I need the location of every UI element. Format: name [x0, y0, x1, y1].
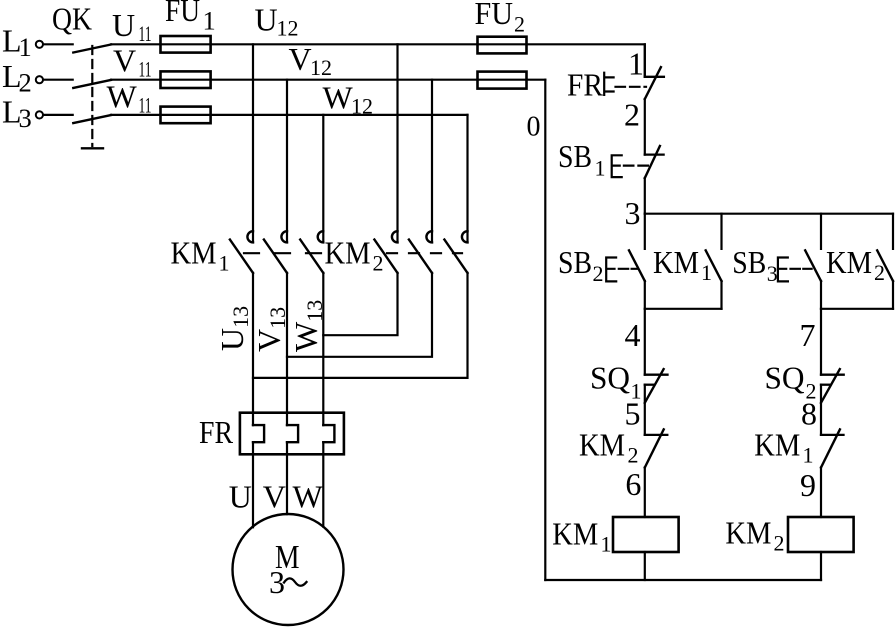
- svg-text:1: 1: [803, 443, 814, 468]
- pushbutton SB3 (NO start rev) blade: [805, 250, 821, 281]
- svg-text:FR: FR: [567, 67, 604, 103]
- wire SB2 lower: [644, 281, 646, 309]
- wire V to motor: [286, 442, 288, 514]
- wire KM1 pole2 drop: [286, 80, 288, 243]
- svg-text:2: 2: [373, 251, 384, 276]
- svg-text:12: 12: [351, 94, 373, 119]
- svg-text:12: 12: [277, 16, 299, 41]
- switch QK handle bar: [82, 147, 103, 149]
- wire KM1 pole3 drop: [322, 115, 324, 242]
- coil KM2: [788, 517, 854, 552]
- svg-text:SB: SB: [558, 244, 592, 280]
- svg-text:11: 11: [139, 93, 152, 118]
- svg-text:12: 12: [310, 55, 332, 80]
- wire KM1 pole1 drop: [252, 44, 254, 242]
- fuse FU2 element 1: [478, 37, 527, 54]
- SB3 actuator dashed link: [791, 268, 812, 270]
- wire KM2 pole2 to V13: [287, 273, 432, 357]
- wire node5 segment: [644, 385, 646, 435]
- svg-text:KM: KM: [579, 427, 625, 463]
- svg-text:W: W: [323, 80, 354, 116]
- fuse FU1 element 1: [161, 36, 211, 53]
- svg-text:2: 2: [774, 531, 785, 556]
- limit switch SQ2 seat tick: [821, 384, 830, 386]
- pushbutton SB2 actuator E: [606, 258, 616, 282]
- svg-text:SB: SB: [732, 244, 766, 280]
- wire node3 segment: [644, 178, 646, 214]
- svg-text:2: 2: [593, 261, 604, 286]
- wire V11 row: [111, 79, 161, 81]
- svg-text:0: 0: [527, 112, 541, 143]
- wire L2 to QK: [43, 79, 72, 81]
- wire node4 segment: [644, 309, 646, 375]
- svg-text:W: W: [293, 479, 324, 515]
- svg-text:U: U: [112, 7, 135, 43]
- wire SB3 drop: [820, 214, 822, 249]
- contactor KM1 main contact pole 3: [300, 231, 323, 273]
- wire bottom rail: [545, 579, 821, 581]
- contactor KM2 interlock blade: [645, 429, 664, 467]
- contactor KM1 linkage dashes: [244, 252, 321, 254]
- FR actuator dashed link: [616, 86, 647, 88]
- svg-text:1: 1: [219, 251, 230, 276]
- switch QK linkage (dashed): [91, 46, 93, 146]
- switch QK pole 1 blade: [73, 45, 111, 53]
- svg-text:1: 1: [628, 46, 644, 82]
- thermal relay FR actuator bracket: [604, 73, 613, 95]
- svg-text:9: 9: [800, 467, 816, 503]
- limit switch SQ2 blade: [821, 369, 840, 403]
- SB1 actuator dashed link: [624, 165, 650, 167]
- svg-text:1: 1: [595, 156, 606, 181]
- svg-text:FR: FR: [199, 414, 234, 450]
- svg-text:V: V: [263, 479, 286, 515]
- svg-text:8: 8: [801, 396, 817, 432]
- wire W11 row: [111, 114, 161, 116]
- contactor KM1 main contact pole 2: [264, 231, 287, 273]
- wire node7 segment: [820, 309, 822, 375]
- svg-text:V: V: [113, 43, 136, 79]
- wire node6 segment: [644, 468, 646, 518]
- wire SB3 lower: [820, 281, 822, 309]
- wire V13 vertical: [286, 273, 288, 425]
- svg-text:3: 3: [767, 261, 778, 286]
- svg-text:2: 2: [514, 12, 525, 37]
- wire U13 vertical: [252, 273, 254, 425]
- svg-text:SQ: SQ: [590, 360, 630, 396]
- svg-text:FU: FU: [165, 0, 200, 28]
- wire L1 to QK: [43, 43, 72, 45]
- wire KM2 pole3 drop: [466, 115, 468, 242]
- terminal L2: [36, 76, 43, 83]
- control vertical: wire node1 segment: [644, 44, 646, 77]
- motor tilde squiggle: [284, 578, 307, 585]
- wire W12 row: [211, 114, 468, 116]
- svg-text:2: 2: [628, 443, 639, 468]
- pushbutton SB2 (NO start fwd) blade: [629, 250, 645, 281]
- contactor KM1 aux contact (NO) blade: [706, 250, 722, 281]
- svg-text:5: 5: [625, 396, 641, 432]
- limit switch SQ2 (NC) foot: [821, 374, 844, 376]
- svg-text:11: 11: [139, 21, 152, 46]
- wire KM2 pole1 to W13: [323, 273, 397, 335]
- pushbutton SB1 (NC stop) foot: [645, 153, 664, 155]
- wire 0 line vertical: [544, 80, 546, 580]
- switch QK pole 2 blade: [73, 80, 111, 88]
- pushbutton SB3 actuator E: [778, 258, 788, 282]
- fuse FU2 element 2: [478, 72, 527, 89]
- wire node9 segment: [820, 468, 822, 518]
- switch QK pole 3 blade: [73, 115, 111, 123]
- svg-text:SQ: SQ: [765, 360, 805, 396]
- wire node8 segment: [820, 385, 822, 435]
- limit switch SQ1 (NC) foot: [645, 374, 668, 376]
- wire V12 to 0 line: [527, 79, 546, 81]
- contactor KM2 aux contact (NO) blade: [877, 250, 893, 281]
- svg-text:3: 3: [269, 564, 285, 600]
- terminal L1: [36, 41, 43, 48]
- wire KM2 aux drop: [892, 214, 894, 249]
- wire L3 to QK: [43, 114, 72, 116]
- SB2 actuator dashed link: [619, 268, 638, 270]
- wire W to motor: [322, 442, 324, 527]
- svg-text:U: U: [255, 2, 278, 38]
- wire U to motor: [252, 442, 254, 527]
- svg-text:2: 2: [624, 97, 640, 133]
- thermal relay FR heater box: [240, 413, 344, 455]
- wire U12 row: [211, 43, 478, 45]
- svg-text:U: U: [229, 479, 252, 515]
- contactor KM1 interlock blade: [821, 429, 840, 467]
- wire KM1 aux lower: [720, 281, 722, 309]
- contactor KM1 interlock contact (NC) foot: [821, 434, 844, 436]
- wire SB3/KM2 join: [821, 308, 893, 310]
- relay contact FR (NC) blade: [645, 67, 661, 99]
- svg-text:FU: FU: [475, 0, 514, 31]
- thermal relay FR heater element 3: [323, 425, 334, 442]
- svg-text:2: 2: [874, 260, 885, 285]
- pushbutton SB1 actuator E: [612, 155, 622, 177]
- svg-text:KM: KM: [325, 235, 371, 271]
- wire KM1 aux drop: [720, 214, 722, 249]
- svg-text:7: 7: [800, 317, 816, 353]
- svg-text:6: 6: [625, 466, 641, 502]
- svg-text:KM: KM: [171, 235, 217, 271]
- wire SB2/KM1 join: [645, 308, 722, 310]
- contactor KM2 linkage dashes: [387, 252, 462, 254]
- wire node3 rail: [645, 213, 893, 215]
- wire W13 vertical: [322, 273, 324, 425]
- svg-text:V: V: [289, 41, 312, 77]
- contactor KM2 main contact pole 2: [409, 231, 432, 273]
- wire U12 to control branch: [527, 44, 645, 77]
- svg-text:QK: QK: [52, 1, 92, 37]
- svg-text:KM: KM: [725, 515, 771, 551]
- thermal relay FR heater element 2: [287, 425, 298, 442]
- svg-text:KM: KM: [826, 244, 872, 280]
- wire V12 row: [211, 79, 478, 81]
- contactor KM2 main contact pole 1: [374, 231, 397, 273]
- contactor KM2 interlock contact (NC) foot: [645, 434, 668, 436]
- thermal relay FR heater element 1: [253, 425, 264, 442]
- coil KM1: [613, 517, 679, 552]
- wire KM2 pole2 drop: [431, 80, 433, 243]
- svg-text:4: 4: [625, 317, 641, 353]
- relay contact FR (NC) foot: [645, 76, 664, 78]
- fuse FU1 element 3: [161, 107, 211, 124]
- contactor KM1 main contact pole 1: [230, 231, 253, 273]
- terminal L3: [36, 111, 43, 118]
- wire coil KM1 to rail: [644, 552, 646, 580]
- motor M circle: [233, 514, 344, 625]
- svg-text:W: W: [107, 79, 138, 115]
- svg-text:3: 3: [625, 195, 641, 231]
- svg-text:KM: KM: [552, 516, 598, 552]
- pushbutton SB1 (NC stop) blade: [645, 146, 660, 178]
- contactor KM2 main contact pole 3: [444, 231, 467, 273]
- svg-text:1: 1: [601, 532, 612, 557]
- wire coil KM2 to rail: [820, 552, 822, 580]
- svg-text:1: 1: [203, 6, 216, 36]
- svg-text:11: 11: [139, 57, 152, 82]
- wire KM2 pole3 to U13: [253, 273, 468, 378]
- wire node2 segment: [644, 99, 646, 155]
- wire SB2 drop: [644, 214, 646, 249]
- svg-text:SB: SB: [558, 138, 592, 174]
- svg-text:KM: KM: [754, 427, 800, 463]
- wire U11 row: [111, 43, 161, 45]
- svg-text:KM: KM: [653, 244, 699, 280]
- wire KM2 aux lower: [892, 281, 894, 309]
- limit switch SQ1 seat tick: [645, 384, 654, 386]
- limit switch SQ1 blade: [645, 369, 664, 403]
- svg-text:3: 3: [19, 103, 32, 133]
- fuse FU1 element 2: [161, 71, 211, 88]
- wire KM2 pole1 drop: [396, 44, 398, 242]
- svg-text:1: 1: [701, 260, 712, 285]
